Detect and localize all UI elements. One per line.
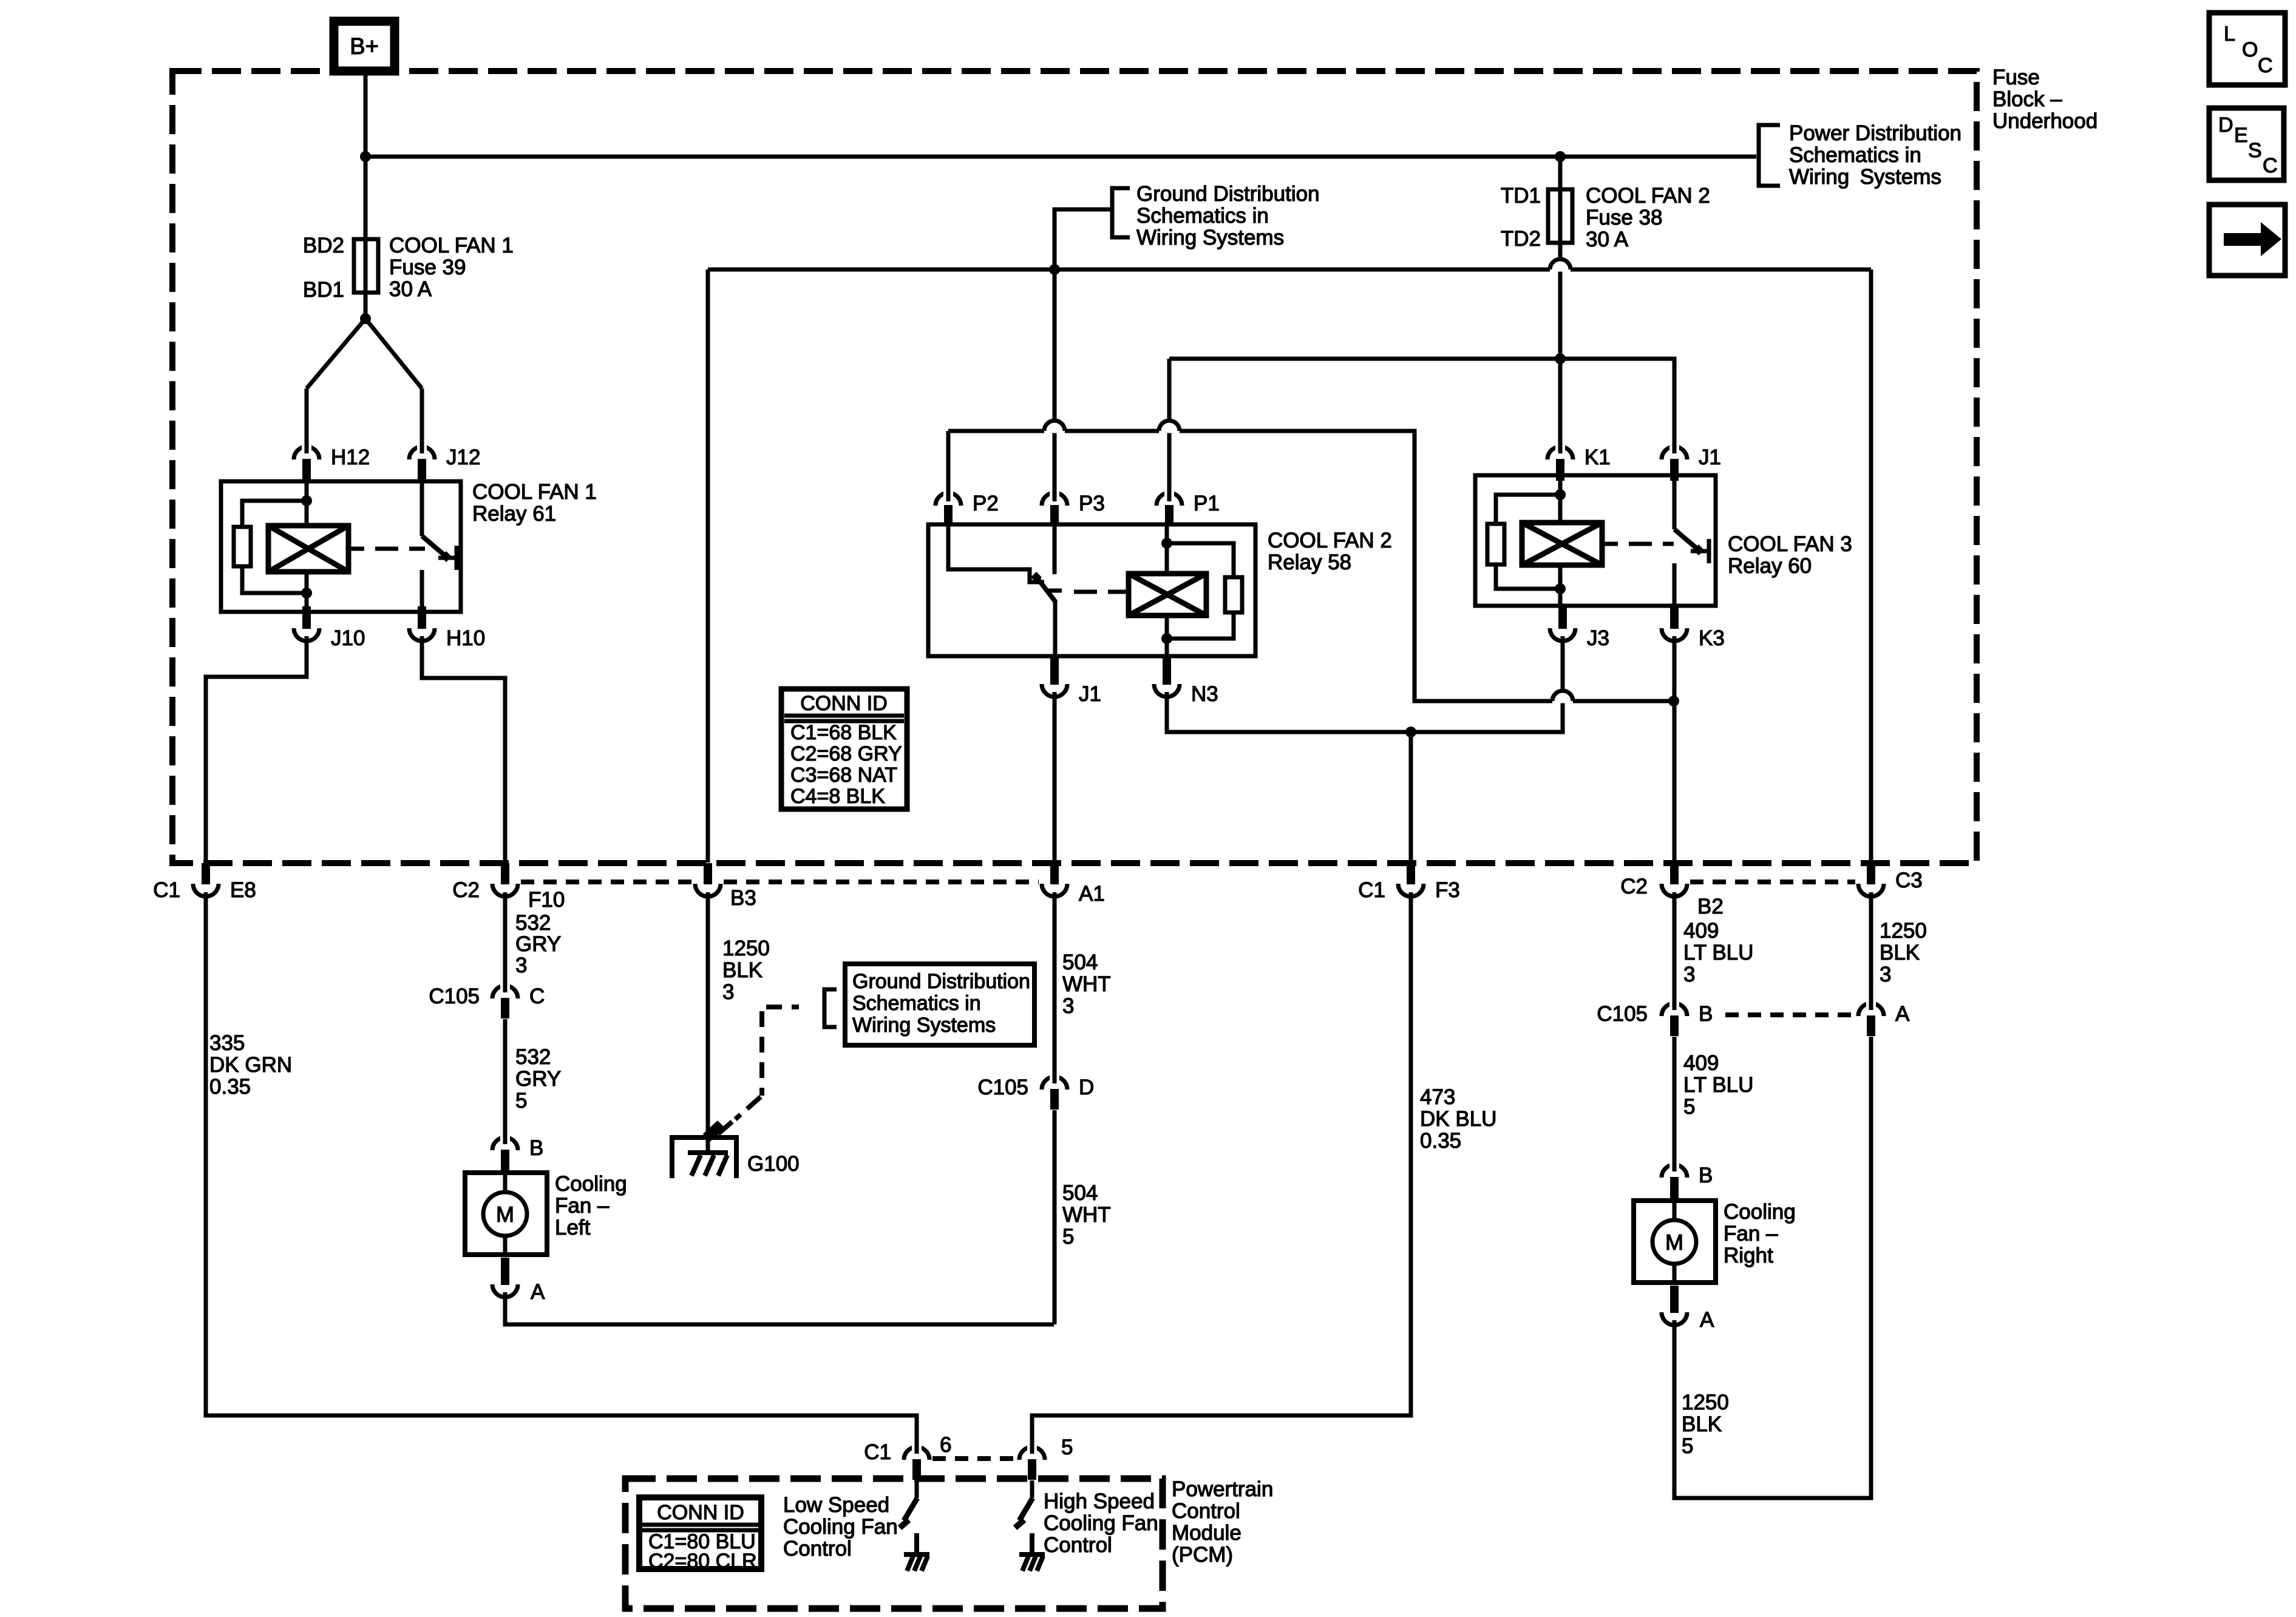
svg-text:CONN ID: CONN ID — [800, 692, 888, 715]
wire: J10 down-left to C1 E8 — [206, 636, 307, 863]
svg-text:M: M — [496, 1202, 514, 1227]
connector pin P2 — [936, 493, 961, 506]
relay58 resistor branch — [1167, 543, 1234, 577]
connector pin J1 (relay60) — [1662, 447, 1687, 459]
svg-text:B+: B+ — [350, 34, 379, 59]
relay61 switch — [420, 481, 424, 536]
connector A (left fan) — [492, 1284, 518, 1297]
svg-text:1250: 1250 — [1880, 919, 1927, 943]
svg-text:C1: C1 — [864, 1440, 891, 1464]
PCM high speed switch — [1030, 1480, 1034, 1498]
svg-text:Cooling: Cooling — [555, 1172, 627, 1196]
relay58 switch blade — [1036, 576, 1056, 602]
wire: fuse39 to split junction — [364, 294, 368, 319]
svg-text:473: 473 — [1420, 1085, 1455, 1109]
svg-text:Module: Module — [1172, 1521, 1241, 1545]
svg-text:Control: Control — [1172, 1499, 1240, 1523]
svg-text:Ground Distribution: Ground Distribution — [1136, 182, 1320, 206]
svg-text:TD2: TD2 — [1501, 227, 1541, 251]
svg-text:S: S — [2248, 139, 2262, 162]
svg-text:C105: C105 — [1597, 1002, 1648, 1026]
wire: B3 to C105-D ground bus at y444 — [708, 268, 1550, 272]
junction at fuse38 tap — [1555, 151, 1566, 162]
relay61 coil — [268, 526, 348, 572]
svg-text:409: 409 — [1683, 1051, 1719, 1075]
svg-text:A: A — [531, 1280, 545, 1304]
svg-text:COOL FAN 2: COOL FAN 2 — [1268, 529, 1392, 552]
svg-text:C2=68 GRY: C2=68 GRY — [790, 742, 902, 765]
relay58 fixed contact from P3 — [1053, 524, 1057, 574]
wire: H10 down-right to C2 F10 — [422, 636, 505, 863]
svg-text:COOL FAN 3: COOL FAN 3 — [1728, 532, 1852, 556]
svg-text:C3=68 NAT: C3=68 NAT — [790, 764, 897, 787]
relay60 switch — [1673, 475, 1677, 529]
wire: fuse38 down through hop to K1 — [1558, 245, 1563, 447]
note: Ground Distribution Schematics in Wiring Systems (boxed) — [845, 964, 1034, 1045]
connector pin P3 — [1042, 493, 1067, 506]
CONN ID table (fuse block) — [781, 689, 907, 809]
svg-text:G100: G100 — [747, 1152, 800, 1176]
wire: K3 down to C2 B2 — [1673, 636, 1677, 863]
svg-text:504: 504 — [1062, 951, 1098, 974]
wire 532 GRY 3 — [503, 892, 508, 986]
svg-text:B: B — [1699, 1164, 1713, 1187]
connector body dashed line C2-B3-A1 — [521, 880, 692, 884]
svg-text:P1: P1 — [1194, 492, 1220, 515]
svg-text:Relay 61: Relay 61 — [472, 502, 556, 526]
svg-text:J3: J3 — [1587, 626, 1609, 650]
wire hop-over at 1926,710 — [1159, 421, 1180, 433]
svg-text:Fuse 38: Fuse 38 — [1586, 206, 1662, 229]
bracket for ground distribution note — [1112, 188, 1130, 237]
svg-text:N3: N3 — [1191, 682, 1218, 706]
svg-text:High Speed: High Speed — [1044, 1490, 1155, 1513]
svg-text:H12: H12 — [331, 446, 370, 469]
relay60 coil feed wire — [1558, 475, 1563, 523]
svg-text:5: 5 — [1061, 1436, 1073, 1459]
svg-text:C3: C3 — [1895, 869, 1923, 892]
connector pin K1 — [1547, 447, 1573, 459]
svg-text:Cooling Fan: Cooling Fan — [783, 1515, 898, 1539]
svg-text:A: A — [1895, 1002, 1910, 1026]
svg-text:Control: Control — [783, 1537, 852, 1561]
connector B3 — [695, 884, 721, 897]
svg-text:3: 3 — [722, 980, 734, 1004]
svg-text:Fuse 39: Fuse 39 — [389, 256, 466, 279]
wire 473 DK BLU 0.35 — [1032, 892, 1411, 1444]
svg-text:E8: E8 — [230, 878, 256, 902]
svg-text:C: C — [2258, 54, 2273, 77]
svg-text:C: C — [529, 985, 545, 1008]
svg-text:6: 6 — [940, 1433, 951, 1457]
wire: B+ down to Fuse 39 — [364, 75, 368, 237]
wire: B3 drop — [706, 269, 710, 863]
wire 1250 BLK 5 — [1674, 1037, 1871, 1498]
svg-text:5: 5 — [1062, 1225, 1074, 1249]
svg-text:M: M — [1665, 1230, 1683, 1255]
relay61 coil feed wire — [305, 481, 309, 526]
wire: P1 and relay60 J1 feed — [1169, 359, 1674, 447]
svg-text:Fan –: Fan – — [555, 1194, 610, 1218]
svg-text:335: 335 — [209, 1031, 245, 1055]
relay58 coil bottom to N3 — [1165, 615, 1169, 656]
wire: feed down to Fuse 38 — [1558, 157, 1563, 188]
battery feed B+ — [334, 21, 395, 71]
svg-text:J12: J12 — [446, 446, 480, 469]
relay58 switch output to J1 — [1053, 601, 1058, 656]
connector pin N3 — [1154, 684, 1180, 697]
wire 532 GRY 5 — [503, 1019, 508, 1139]
svg-text:(PCM): (PCM) — [1172, 1543, 1233, 1567]
wire 1250 BLK 3 (to G100) — [706, 892, 710, 1153]
svg-text:Control: Control — [1044, 1533, 1112, 1557]
connector pin J10 — [294, 628, 319, 641]
wire to pin 6 — [915, 1415, 919, 1444]
svg-text:1250: 1250 — [1682, 1391, 1729, 1414]
svg-text:Low Speed: Low Speed — [783, 1493, 889, 1517]
connector C1 E8 — [193, 884, 219, 897]
wire 409 LT BLU 5 — [1673, 1037, 1677, 1166]
svg-text:F10: F10 — [528, 888, 565, 912]
connector pin H10 — [409, 628, 435, 641]
svg-text:3: 3 — [515, 954, 527, 977]
wire: horizontal feed from B+ to Power Distribution at y258 — [365, 155, 1756, 159]
svg-text:E: E — [2234, 124, 2248, 147]
connector pin J12 — [409, 447, 435, 459]
relay61 resistor branch — [242, 501, 307, 527]
junction with K1/J1 feed line — [1555, 353, 1566, 364]
relay58 coil — [1129, 574, 1206, 615]
svg-text:409: 409 — [1683, 919, 1719, 943]
svg-text:CONN ID: CONN ID — [657, 1501, 744, 1524]
svg-text:C2=80 CLR: C2=80 CLR — [648, 1550, 757, 1573]
svg-text:30 A: 30 A — [389, 277, 432, 301]
relay58 resistor — [1225, 577, 1242, 612]
connector pin J3 — [1550, 628, 1575, 641]
CONN ID table (PCM) — [639, 1497, 761, 1569]
wire: split diagonals to H12 / J12 — [307, 319, 365, 388]
svg-text:P2: P2 — [973, 492, 999, 515]
PCM low speed switch — [915, 1480, 919, 1498]
svg-text:C: C — [2263, 154, 2278, 177]
svg-text:LT BLU: LT BLU — [1683, 1073, 1753, 1097]
svg-text:BLK: BLK — [1880, 941, 1920, 964]
connector A (right fan) — [1662, 1312, 1687, 1325]
ground G100 — [670, 1135, 739, 1140]
fuse COOL FAN 1 Fuse 39 30A — [354, 239, 378, 293]
svg-text:L: L — [2224, 22, 2235, 46]
svg-text:Wiring Systems: Wiring Systems — [852, 1014, 996, 1037]
svg-text:F3: F3 — [1435, 878, 1460, 902]
junction at B+ wire / horizontal feed — [360, 151, 371, 162]
wire: ground distribution tap — [1055, 209, 1112, 269]
wire 409 LT BLU 3 — [1673, 892, 1677, 1004]
svg-text:D: D — [1079, 1076, 1094, 1099]
bracket for boxed ground note — [824, 989, 837, 1027]
relay61 coil bottom wire — [305, 572, 309, 612]
LOC button — [2209, 13, 2285, 85]
relay61 resistor — [234, 527, 251, 566]
relay COOL FAN 3 Relay 60 box — [1475, 475, 1716, 606]
svg-text:D: D — [2218, 114, 2233, 137]
svg-text:Schematics in: Schematics in — [852, 992, 981, 1015]
svg-text:Wiring Systems: Wiring Systems — [1789, 165, 1941, 189]
svg-text:Relay 60: Relay 60 — [1728, 554, 1812, 578]
wire: left fan A to 504 WHT 5 — [505, 1292, 1054, 1324]
svg-text:BLK: BLK — [1682, 1412, 1722, 1436]
connector pin H12 — [294, 447, 319, 459]
dashed pointer to ground note — [766, 1005, 799, 1009]
svg-text:Right: Right — [1724, 1244, 1773, 1267]
svg-text:Cooling: Cooling — [1724, 1200, 1796, 1224]
connector C2 B2 — [1662, 884, 1687, 897]
relay60 coil — [1522, 523, 1602, 565]
fuse COOL FAN 2 Fuse 38 30A — [1548, 189, 1572, 243]
connector pin K3 — [1662, 628, 1687, 641]
connector pin 5 — [1019, 1447, 1045, 1460]
connector body dashed line pins 6-5 — [932, 1456, 1016, 1461]
wire hop-over at 1737,710 — [1044, 421, 1065, 433]
svg-text:J10: J10 — [331, 626, 365, 650]
relay60 resistor branch — [1496, 495, 1560, 524]
svg-text:Power Distribution: Power Distribution — [1789, 121, 1961, 145]
wire: C3 drop — [1869, 269, 1873, 863]
wire: P2 feed with hops, to relay60 K3 — [948, 429, 1044, 433]
svg-text:Schematics in: Schematics in — [1136, 204, 1269, 228]
svg-text:B: B — [1699, 1002, 1713, 1026]
svg-text:Fan –: Fan – — [1724, 1222, 1778, 1246]
relay COOL FAN 2 Relay 58 box — [928, 524, 1255, 656]
svg-text:Left: Left — [555, 1216, 591, 1239]
svg-text:532: 532 — [515, 1045, 551, 1069]
svg-text:Fuse: Fuse — [1992, 66, 2040, 89]
svg-text:H10: H10 — [446, 626, 485, 650]
svg-text:A1: A1 — [1079, 882, 1105, 906]
svg-text:C105: C105 — [977, 1076, 1028, 1099]
svg-text:3: 3 — [1880, 963, 1891, 986]
relay58 coil feed from P1 — [1165, 524, 1169, 574]
relay58 dashed actuator link — [1074, 590, 1097, 594]
svg-text:5: 5 — [1682, 1434, 1693, 1458]
wire: P2 drop — [946, 431, 951, 501]
connector B (left fan) — [492, 1137, 518, 1150]
wire hop-over at 2570,444 — [1550, 259, 1571, 272]
wire 1250 BLK 3 (right) — [1869, 892, 1873, 1004]
Fuse Block - Underhood dashed boundary box — [172, 71, 1977, 863]
connector A1 — [1042, 884, 1067, 897]
wire: F3 drop — [1409, 732, 1413, 863]
Cooling Fan Right motor box — [1634, 1201, 1716, 1283]
DESC button — [2209, 108, 2284, 180]
svg-text:C105: C105 — [429, 985, 480, 1008]
svg-text:Block –: Block – — [1992, 87, 2062, 111]
svg-text:B2: B2 — [1697, 895, 1724, 918]
svg-text:0.35: 0.35 — [1420, 1129, 1461, 1153]
connector body dashed line B2-C3 — [1690, 880, 1855, 884]
svg-text:BD2: BD2 — [303, 234, 344, 257]
svg-text:532: 532 — [515, 911, 551, 935]
svg-text:Wiring Systems: Wiring Systems — [1136, 226, 1284, 249]
svg-text:3: 3 — [1062, 994, 1074, 1018]
svg-text:Underhood: Underhood — [1992, 109, 2097, 133]
wire 504 WHT 5 — [1053, 1110, 1057, 1324]
connector pin 6 — [904, 1447, 929, 1460]
svg-text:B: B — [529, 1136, 543, 1160]
wire: P3 drop — [1053, 269, 1057, 501]
connector B (right fan) — [1662, 1165, 1687, 1178]
connector pin J1 (relay58) — [1042, 684, 1067, 697]
svg-text:A: A — [1700, 1308, 1714, 1332]
relay61 dashed actuator link — [348, 547, 364, 551]
PCM dashed boundary box — [625, 1479, 1163, 1609]
svg-text:5: 5 — [1683, 1095, 1695, 1119]
svg-text:J1: J1 — [1079, 682, 1101, 706]
svg-text:5: 5 — [515, 1089, 527, 1113]
high speed ground — [1030, 1533, 1034, 1554]
svg-text:J1: J1 — [1699, 446, 1721, 469]
connector C105 D — [1042, 1077, 1067, 1090]
connector C2 F10 — [492, 884, 518, 897]
svg-text:O: O — [2242, 38, 2258, 61]
relay58 switch common from P2 — [948, 524, 1044, 582]
svg-text:COOL FAN 2: COOL FAN 2 — [1586, 184, 1710, 208]
wire 335 DK GRN 0.35 — [206, 892, 917, 1444]
svg-text:GRY: GRY — [515, 1067, 561, 1091]
svg-text:GRY: GRY — [515, 932, 561, 956]
connector C105 B — [1662, 1003, 1687, 1016]
wire: J1 down to A1 — [1053, 692, 1057, 863]
svg-text:C4=8 BLK: C4=8 BLK — [790, 785, 885, 808]
svg-text:B3: B3 — [730, 886, 756, 910]
svg-text:C1: C1 — [1358, 878, 1385, 902]
connector body dashed line C105 B-A — [1725, 1012, 1855, 1017]
relay60 coil bottom wire — [1558, 565, 1563, 606]
svg-text:1250: 1250 — [722, 937, 770, 960]
relay58 fixed contact bar — [1048, 589, 1062, 593]
connector C105 C — [492, 986, 518, 998]
svg-text:Powertrain: Powertrain — [1172, 1477, 1273, 1501]
svg-text:504: 504 — [1062, 1181, 1098, 1205]
svg-text:3: 3 — [1683, 963, 1695, 986]
low speed ground — [914, 1533, 919, 1554]
svg-text:Schematics in: Schematics in — [1789, 143, 1921, 167]
svg-text:LT BLU: LT BLU — [1683, 941, 1753, 964]
svg-text:DK BLU: DK BLU — [1420, 1107, 1496, 1131]
svg-text:30 A: 30 A — [1586, 228, 1629, 251]
svg-text:BD1: BD1 — [303, 278, 344, 302]
svg-text:TD1: TD1 — [1501, 184, 1541, 208]
svg-text:P3: P3 — [1079, 492, 1105, 515]
svg-text:Cooling Fan: Cooling Fan — [1044, 1511, 1158, 1535]
svg-text:WHT: WHT — [1062, 1203, 1111, 1227]
wire: N3 to J3 with F3 tap — [1167, 636, 1563, 732]
wire: P1 drop — [1167, 359, 1172, 501]
svg-text:COOL FAN 1: COOL FAN 1 — [472, 480, 597, 504]
relay60 resistor — [1487, 524, 1504, 564]
svg-text:DK GRN: DK GRN — [209, 1053, 292, 1077]
svg-text:C1: C1 — [153, 878, 180, 902]
svg-text:C2: C2 — [1620, 875, 1648, 898]
svg-text:0.35: 0.35 — [209, 1075, 251, 1099]
relay60 dashed actuator link — [1602, 542, 1618, 546]
connector C1 F3 — [1398, 884, 1424, 897]
svg-text:C1=68 BLK: C1=68 BLK — [790, 721, 897, 744]
connector C105 A — [1858, 1003, 1884, 1016]
svg-text:WHT: WHT — [1062, 972, 1111, 996]
wire 504 WHT 3 — [1053, 892, 1057, 1077]
junction P3 tap — [1049, 264, 1060, 275]
junction at H12/J12 split — [360, 313, 371, 324]
forward arrow button — [2209, 205, 2285, 276]
svg-text:K1: K1 — [1584, 446, 1611, 469]
svg-text:K3: K3 — [1699, 626, 1725, 650]
svg-text:C2: C2 — [452, 878, 480, 902]
svg-text:COOL FAN 1: COOL FAN 1 — [389, 234, 514, 257]
relay COOL FAN 1 Relay 61 box — [221, 481, 461, 612]
Cooling Fan Left motor box — [465, 1173, 547, 1255]
wire hop-over at 2574,1155 — [1552, 691, 1573, 703]
svg-text:Ground Distribution: Ground Distribution — [852, 970, 1030, 993]
svg-text:BLK: BLK — [722, 958, 763, 982]
svg-text:Relay 58: Relay 58 — [1268, 551, 1351, 574]
connector pin P1 — [1156, 493, 1182, 506]
connector C3 — [1858, 884, 1884, 897]
bracket for power distribution note — [1759, 125, 1780, 186]
